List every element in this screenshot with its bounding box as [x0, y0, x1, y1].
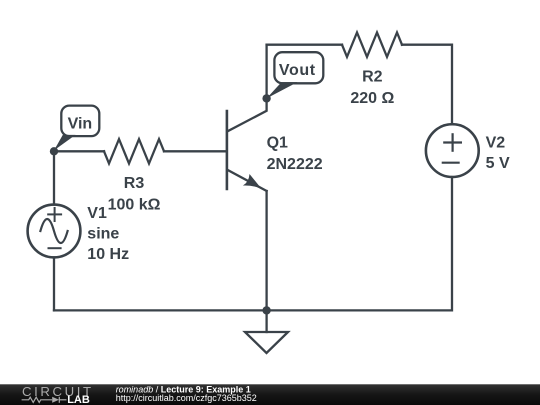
resistor R3 — [104, 139, 164, 163]
wire collector to top rail — [265, 45, 267, 99]
wire R3 to Q1 base — [164, 150, 226, 152]
wire top rail to R2 — [267, 44, 342, 46]
svg-text:220 Ω: 220 Ω — [350, 90, 394, 107]
svg-text:R2: R2 — [362, 68, 383, 85]
svg-text:Vin: Vin — [68, 115, 93, 132]
svg-text:Vout: Vout — [279, 62, 316, 79]
wire V1 bottom to bottom rail — [53, 257, 55, 310]
svg-text:V1: V1 — [87, 205, 107, 222]
svg-text:100 kΩ: 100 kΩ — [108, 197, 161, 214]
svg-text:R3: R3 — [124, 175, 145, 192]
resistor R2 — [342, 33, 402, 57]
svg-text:sine: sine — [87, 225, 119, 242]
svg-text:LAB: LAB — [67, 394, 90, 405]
voltage source V1 — [28, 205, 81, 258]
svg-text:2N2222: 2N2222 — [267, 156, 323, 173]
logo schematic — [22, 397, 67, 403]
wire V2 bottom to ground rail — [267, 177, 452, 310]
node Vout junction — [262, 94, 270, 102]
node Vin junction — [50, 147, 58, 155]
wire Vin node to R3 — [54, 150, 104, 152]
svg-text:10 Hz: 10 Hz — [87, 246, 129, 263]
svg-text:Q1: Q1 — [267, 135, 288, 152]
footer bar — [0, 384, 540, 405]
net label flag Vout — [267, 52, 324, 98]
node ground junction — [262, 306, 270, 314]
voltage source V2 — [426, 124, 479, 177]
svg-text:V2: V2 — [486, 135, 506, 152]
net label flag Vin — [54, 106, 99, 151]
svg-text:5 V: 5 V — [486, 155, 510, 172]
transistor Q1 — [227, 98, 267, 191]
ground — [245, 310, 288, 353]
wire Q1 emitter to ground rail — [265, 191, 267, 310]
wire R2 to V2 top — [402, 45, 452, 125]
wire Vin node to V1 top — [53, 151, 55, 204]
wire bottom rail left — [54, 309, 267, 311]
svg-text:http://circuitlab.com/czfgc736: http://circuitlab.com/czfgc7365b352 — [116, 393, 257, 403]
